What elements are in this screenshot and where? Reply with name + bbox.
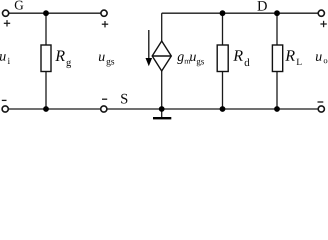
wire top-left rail G [9, 12, 101, 14]
label u_gs : sub gs [107, 60, 115, 67]
current direction arrow [146, 30, 153, 66]
junction at S rail / dependent source bottom [159, 106, 165, 112]
junction at D rail / RL top [274, 10, 280, 16]
terminal input - (bottom-left) [2, 106, 8, 112]
label RL : R [285, 50, 295, 60]
label u_o : sub o [324, 59, 328, 63]
wire dependent source bottom lead [161, 71, 163, 109]
polarity - at output bottom [318, 101, 324, 103]
wire dependent source top lead [161, 13, 163, 41]
polarity - at input bottom [2, 99, 7, 101]
label Rg : R [55, 51, 65, 61]
label gm ugs : sub gs [197, 60, 204, 67]
polarity + at input top [4, 20, 10, 26]
node D label [257, 1, 266, 11]
wire RL top lead [276, 13, 278, 45]
polarity - at source port bottom [102, 98, 107, 100]
label u_o : u [316, 54, 322, 61]
node G label [15, 1, 24, 10]
junction at G rail / Rg top [43, 10, 49, 16]
junction at S rail / Rd bottom [220, 106, 226, 112]
label u_i : u [0, 54, 6, 61]
label gm ugs : sub m [184, 60, 190, 64]
resistor Rg [41, 45, 51, 72]
wire RL bottom lead [276, 72, 278, 110]
wire Rg bottom lead [45, 72, 47, 110]
wire bottom rail S right [108, 108, 318, 110]
wire ground stub [161, 109, 163, 117]
label u_gs : u [99, 55, 105, 62]
label u_i : sub i [8, 58, 10, 64]
polarity + at output top [320, 21, 326, 27]
wire Rd top lead [222, 13, 224, 45]
label RL : sub L [297, 59, 302, 65]
label gm ugs : u [190, 55, 196, 62]
polarity + at gate port top [102, 21, 108, 27]
node S label [121, 94, 127, 104]
terminal input + (top-left) [3, 10, 9, 16]
junction at D rail / Rd top [220, 10, 226, 16]
label Rd : R [233, 50, 243, 60]
ground [153, 117, 171, 119]
junction at S rail / RL bottom [274, 106, 280, 112]
label gm ugs : g [177, 54, 184, 64]
terminal gate port + (top-middle) [101, 10, 107, 16]
resistor RL [272, 45, 282, 72]
wire bottom rail S left [9, 108, 101, 110]
wire top-right rail D [162, 12, 318, 14]
terminal output - (bottom-right) [318, 106, 324, 112]
wire Rd bottom lead [222, 72, 224, 110]
label Rd : sub d [245, 58, 250, 66]
terminal source port - (bottom-middle, inline) [101, 106, 107, 112]
wire Rg top lead [45, 13, 47, 45]
resistor Rd [217, 45, 228, 72]
terminal output + (top-right) [318, 10, 324, 16]
dependent current source gm*ugs (diamond with crossbar) [152, 41, 171, 71]
junction at S rail / Rg bottom [43, 106, 49, 112]
label Rg : sub g [66, 60, 71, 68]
